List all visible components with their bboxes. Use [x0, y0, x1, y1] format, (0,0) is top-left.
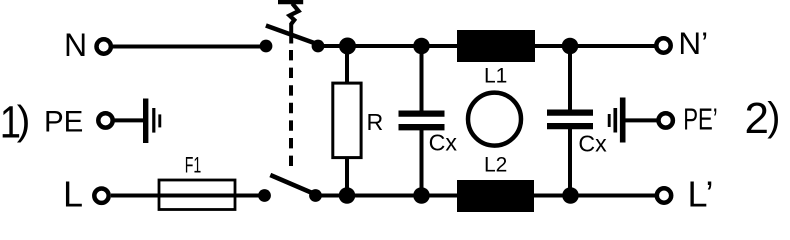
wire switch to node A — [318, 44, 457, 48]
svg-text:L1: L1 — [484, 64, 507, 87]
capacitor Cx1 top plate — [399, 110, 445, 116]
svg-text:PE’: PE’ — [683, 102, 718, 136]
choke core circle — [468, 93, 521, 146]
wire capacitor Cx2 to node F — [568, 128, 572, 196]
svg-text:Cx: Cx — [578, 130, 607, 156]
capacitor Cx2 bottom plate — [547, 123, 593, 129]
inductor L1 body — [457, 30, 535, 62]
svg-text:L’: L’ — [688, 174, 714, 213]
terminal L — [94, 189, 108, 203]
node E junction dot — [562, 38, 579, 55]
wire node C to capacitor Cx1 — [420, 46, 424, 112]
capacitor Cx2 top plate — [547, 109, 593, 115]
svg-text:): ) — [17, 97, 31, 143]
terminal PE' — [659, 113, 673, 127]
svg-text:F1: F1 — [185, 153, 202, 178]
resistor R body — [333, 83, 361, 158]
inductor L2 body — [457, 180, 534, 212]
wire PE to earth — [114, 118, 146, 122]
fuse F1 body — [159, 180, 235, 210]
wire resistor to node B — [345, 158, 349, 196]
switch actuator zigzag — [290, 4, 299, 25]
svg-text:L: L — [63, 174, 83, 212]
svg-text:): ) — [767, 95, 780, 139]
wire node A to resistor — [345, 46, 349, 83]
svg-text:N’: N’ — [678, 25, 708, 61]
earth symbol PE (thick bar) — [143, 99, 148, 144]
node C junction dot — [413, 38, 430, 55]
terminal PE — [98, 113, 112, 127]
svg-text:Cx: Cx — [429, 129, 458, 155]
fuse F1 through-line — [159, 194, 235, 198]
wire L to fuse — [111, 194, 265, 198]
svg-text:PE: PE — [44, 105, 83, 138]
svg-text:L2: L2 — [484, 154, 507, 177]
node D junction dot — [413, 187, 430, 204]
wire L2 to terminal L' — [534, 194, 656, 198]
wire earth to terminal PE' — [623, 118, 657, 122]
node B junction dot — [339, 187, 356, 204]
earth symbol PE' (medium bar) — [613, 108, 617, 133]
switch pole 1 right contact dot — [312, 40, 325, 53]
terminal N' — [656, 38, 670, 52]
earth symbol PE' (thick bar) — [620, 98, 626, 143]
switch linkage dashed — [289, 50, 293, 166]
switch actuator T-bar — [278, 0, 303, 4]
switch pole 2 right contact dot — [309, 189, 322, 202]
node F junction dot — [562, 187, 579, 204]
terminal N — [97, 39, 111, 53]
switch link vertical — [289, 23, 293, 44]
svg-text:N: N — [64, 27, 87, 63]
wire switch to node B — [316, 194, 458, 198]
svg-text:2: 2 — [745, 94, 769, 143]
switch pole 2 left contact dot — [258, 189, 271, 202]
wire node E to capacitor Cx2 — [568, 46, 572, 111]
terminal L' — [657, 188, 671, 202]
switch pole 1 left contact dot — [260, 40, 273, 53]
node A junction dot — [339, 38, 356, 55]
switch pole 2 blade — [270, 175, 317, 195]
earth symbol PE' (small bar) — [608, 114, 611, 127]
earth symbol PE (medium bar) — [152, 108, 155, 133]
wire N to switch — [113, 45, 266, 49]
wire capacitor Cx1 to node D — [420, 129, 424, 196]
svg-text:R: R — [367, 109, 384, 135]
wire L1 to terminal N' — [535, 44, 656, 48]
switch pole 1 blade — [266, 26, 323, 47]
earth symbol PE (small bar) — [158, 114, 161, 127]
capacitor Cx1 bottom plate — [399, 124, 445, 130]
